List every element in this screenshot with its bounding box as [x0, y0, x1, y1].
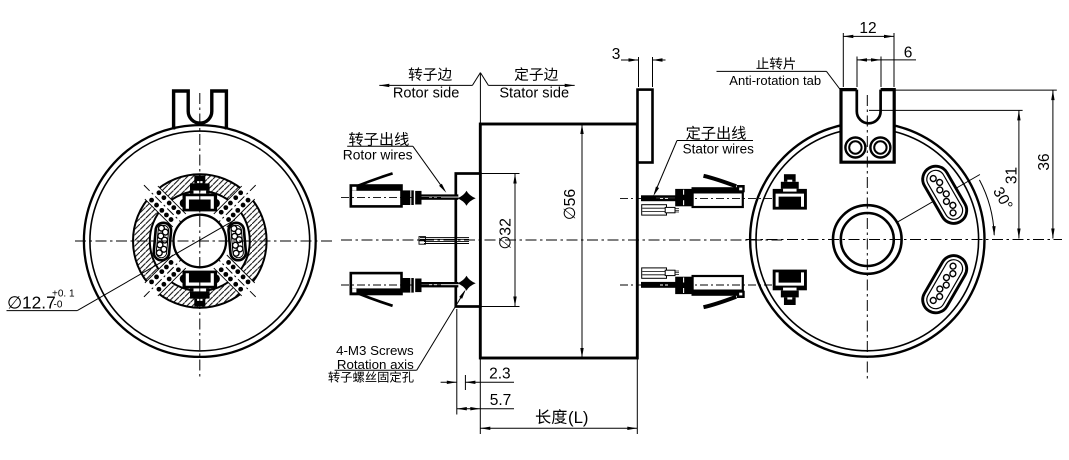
- channel edge lines at 315 deg: [227, 255, 255, 283]
- left view hatched stator ring: [133, 174, 267, 308]
- stator connector body: [693, 276, 743, 295]
- diagonal centerline at 315 deg: [214, 255, 256, 297]
- wire slot left: [153, 222, 172, 261]
- right view bore: [841, 213, 894, 266]
- rotor connector body: [351, 273, 402, 294]
- svg-text:3: 3: [612, 46, 621, 63]
- wire dots at 315 deg: [226, 260, 231, 265]
- diagonal centerline at 135 deg: [144, 185, 186, 227]
- rotor connector centerline: [341, 284, 441, 286]
- left view horizontal centerline: [75, 240, 332, 242]
- svg-text:Anti-rotation tab: Anti-rotation tab: [729, 73, 821, 88]
- rotor wires label: [349, 132, 409, 146]
- stator wire slot upper: [918, 161, 972, 228]
- hatch ring outer edge: [133, 174, 267, 308]
- middle view centerline: [341, 239, 782, 241]
- middle view anti-rotation tab (side): [638, 90, 653, 163]
- dimension 31: [869, 109, 1023, 111]
- left view bore circle Ø12.7: [174, 215, 227, 268]
- svg-text:(L): (L): [568, 408, 589, 427]
- diagonal centerline at 225 deg: [144, 255, 186, 297]
- brush block top: [180, 199, 189, 208]
- screw block top-left: [784, 174, 796, 182]
- tab hole right: [870, 138, 890, 158]
- dimension 5.7: [457, 408, 481, 410]
- svg-text:∅12.7: ∅12.7: [7, 293, 56, 313]
- svg-text:2.3: 2.3: [489, 366, 511, 383]
- stator lead wire: [641, 282, 676, 288]
- svg-text:12: 12: [859, 20, 876, 37]
- stator connector crimp: [675, 277, 693, 294]
- wire channel through hatch at 225 deg: [144, 268, 172, 296]
- right view bore boss: [833, 205, 902, 274]
- tab hole left: [845, 138, 865, 158]
- rotor connector crimp: [402, 278, 414, 293]
- svg-text:∅56: ∅56: [562, 189, 579, 221]
- rotor screw top (M3): [457, 191, 475, 206]
- screw block bottom-left: [784, 297, 796, 305]
- svg-text:+0. 1: +0. 1: [52, 289, 75, 300]
- svg-text:Rotation axis: Rotation axis: [337, 357, 414, 372]
- channel edge lines at 45 deg: [214, 186, 242, 214]
- rotor side label: [409, 67, 452, 81]
- right view vertical centerline: [866, 95, 868, 381]
- svg-text:-0: -0: [54, 300, 63, 311]
- hatch ring inner edge: [150, 191, 250, 291]
- right view horizontal centerline: [746, 239, 1062, 241]
- stator connector body: [693, 188, 743, 207]
- stator ribbon wires: [642, 205, 667, 215]
- dimension Ø32 (flange): [482, 173, 520, 175]
- 30 degree dimension arc: [979, 180, 994, 235]
- anti-rotation tab label: [756, 57, 795, 69]
- svg-text:Rotor wires: Rotor wires: [343, 147, 413, 162]
- dimension Ø56 (body): [581, 124, 583, 358]
- dimension length L: [480, 427, 637, 429]
- channel edge lines at 225 deg: [158, 268, 186, 296]
- stator side label: [515, 67, 558, 81]
- wire dots at 135 deg: [169, 217, 174, 222]
- stator connector centerline: [620, 197, 782, 199]
- left view vertical centerline: [199, 93, 201, 380]
- stator wire slot lower: [918, 251, 972, 318]
- svg-text:∅32: ∅32: [498, 218, 515, 249]
- wire channel through hatch at 135 deg: [144, 185, 172, 213]
- stator ribbon wires: [642, 268, 667, 278]
- channel edge lines at 135 deg: [145, 199, 173, 227]
- svg-text:5.7: 5.7: [490, 392, 512, 409]
- stator connector crimp: [675, 189, 693, 206]
- svg-text:36: 36: [1036, 153, 1053, 170]
- dimension 2.3: [441, 381, 457, 383]
- bore diameter label leader: [7, 310, 78, 312]
- rotor screw bottom (M3): [457, 276, 475, 291]
- wire dots at 225 deg: [176, 267, 181, 272]
- wire dots at 45 deg: [219, 210, 224, 215]
- wire channel through hatch at 315 deg: [227, 268, 255, 296]
- right view outer circle: [750, 122, 984, 356]
- right view inner circle: [756, 128, 979, 351]
- middle view main body (stator): [480, 124, 637, 358]
- stator wires label: [686, 126, 746, 140]
- boundary vertical line: [479, 73, 481, 124]
- stator lead wire: [641, 195, 676, 201]
- middle view rotor flange: [456, 174, 481, 307]
- center wire bundle: [420, 236, 469, 238]
- svg-text:Rotor side: Rotor side: [393, 85, 460, 101]
- rotor connector centerline: [341, 196, 441, 198]
- extension lines bottom: [456, 309, 458, 415]
- svg-text:Stator side: Stator side: [499, 85, 569, 101]
- svg-text:31: 31: [1004, 167, 1021, 184]
- rotor connector crimp: [402, 190, 414, 205]
- brush block bottom: [180, 274, 189, 283]
- dimension 36: [894, 89, 1057, 91]
- left view anti-rotation tab (front): [174, 91, 227, 130]
- diagonal centerline at 45 deg: [214, 185, 256, 227]
- rotor/stator side direction line: [379, 84, 472, 86]
- svg-text:6: 6: [904, 45, 913, 62]
- stator connector centerline: [620, 284, 782, 286]
- svg-text:Stator wires: Stator wires: [683, 141, 755, 156]
- left view inner circle: [90, 131, 310, 351]
- right view 30 deg line: [867, 175, 980, 240]
- wire channel through hatch at 45 deg: [227, 185, 255, 213]
- right view anti-rotation tab: [841, 90, 894, 163]
- rotor lead wire: [422, 282, 459, 287]
- rotor connector body: [351, 186, 402, 207]
- rotor lead wire: [422, 194, 459, 199]
- wire slot right: [228, 222, 247, 261]
- left view outer circle (Ø56): [84, 125, 316, 357]
